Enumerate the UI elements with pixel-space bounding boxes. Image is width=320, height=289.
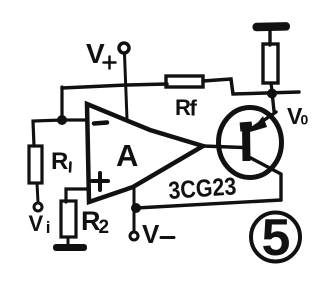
svg-text:f: f [190,96,198,121]
svg-text:V: V [29,211,44,236]
svg-text:V: V [142,219,160,249]
svg-text:A: A [116,138,138,173]
svg-text:5: 5 [262,209,291,267]
svg-text:0: 0 [301,112,309,128]
svg-text:R: R [51,148,68,175]
svg-text:2: 2 [99,217,110,238]
svg-text:V: V [86,38,105,69]
svg-text:3CG23: 3CG23 [167,172,237,204]
svg-text:i: i [46,218,51,237]
